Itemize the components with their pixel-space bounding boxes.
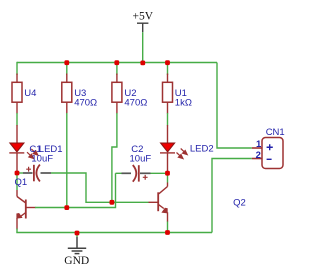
node: GND junction bbox=[75, 231, 80, 236]
node: Q1 base / U3 junction bbox=[64, 205, 69, 210]
node: Q2 base / U2 / C1 junction bbox=[110, 200, 115, 205]
resistor U1 1kohm bbox=[163, 74, 192, 114]
wire: bottom ground bus bbox=[16, 232, 212, 234]
connector CN1 bbox=[252, 127, 285, 169]
node: bus dot U3 bbox=[64, 60, 69, 65]
node: bus dot U2 bbox=[114, 60, 119, 65]
wire: U1 to LED2 bbox=[167, 113, 169, 126]
wire: U1 top bbox=[167, 63, 169, 76]
wire: Q1 base line bbox=[35, 173, 116, 207]
LED LED1 bbox=[9, 125, 62, 172]
wire: Q1 emitter to bottom bus bbox=[16, 229, 18, 233]
ground symbol GND bbox=[64, 233, 89, 267]
wire: U2 down with jog to Q2 base node bbox=[112, 113, 117, 202]
capacitor C1 10uF bbox=[19, 154, 53, 182]
wire: CN1 pin 2 to bottom bus bbox=[212, 159, 252, 233]
LED2 light arrows bbox=[177, 149, 188, 159]
svg-text:1kΩ: 1kΩ bbox=[175, 97, 192, 108]
node: Q1 collector / LED1 cathode junction bbox=[15, 171, 20, 176]
svg-text:U4: U4 bbox=[24, 88, 36, 99]
node: bus dot +5V bbox=[140, 61, 145, 66]
wire: top bus right rail down to CN1 pin 1 bbox=[217, 63, 252, 149]
power +5V symbol bbox=[133, 11, 154, 33]
LED1 light arrows bbox=[27, 149, 38, 159]
wire: C2 to LED2 cathode node bbox=[151, 172, 168, 174]
wire: +5V top bus bbox=[17, 62, 217, 64]
wire: C1 to Q2 base (jog) bbox=[51, 173, 112, 202]
wire: U3 down to Q1 base bbox=[66, 113, 68, 208]
CN1 minus mark bbox=[267, 158, 272, 160]
svg-text:470Ω: 470Ω bbox=[124, 97, 147, 108]
svg-text:470Ω: 470Ω bbox=[74, 97, 97, 108]
svg-text:10uF: 10uF bbox=[31, 154, 53, 165]
transistor Q1 bbox=[15, 173, 36, 230]
svg-text:LED2: LED2 bbox=[190, 143, 214, 154]
wire: Q2 base node to Q2 bbox=[112, 201, 149, 203]
svg-text:1: 1 bbox=[256, 139, 262, 150]
svg-text:2: 2 bbox=[256, 150, 261, 161]
svg-text:10uF: 10uF bbox=[130, 154, 152, 165]
wire: U3 top bbox=[66, 63, 68, 76]
svg-text:GND: GND bbox=[64, 255, 89, 267]
svg-text:Q2: Q2 bbox=[233, 197, 246, 208]
LED LED2 bbox=[160, 125, 214, 172]
svg-text:CN1: CN1 bbox=[266, 127, 285, 138]
node: Q2 collector / LED2 cathode / C2 junction bbox=[165, 171, 170, 176]
wire: Q2 emitter to bottom bus bbox=[167, 222, 169, 233]
wire: +5V stem to bus bbox=[142, 32, 144, 62]
wire: left rail U4 top bbox=[16, 62, 18, 75]
wire: U2 top bbox=[116, 63, 118, 76]
CN1 plus mark bbox=[267, 144, 273, 150]
capacitor C2 10uF bbox=[116, 144, 152, 182]
node: bus dot U1 bbox=[165, 60, 170, 65]
resistor U4 bbox=[12, 74, 36, 114]
resistor U2 470ohm bbox=[112, 74, 147, 114]
node: Q2 emitter junction bbox=[165, 230, 170, 235]
transistor Q2 bbox=[149, 173, 246, 222]
svg-text:+5V: +5V bbox=[133, 11, 154, 23]
svg-text:Q1: Q1 bbox=[15, 177, 28, 188]
resistor U3 470ohm bbox=[62, 74, 97, 114]
wire: U4 to LED1 bbox=[16, 113, 18, 126]
